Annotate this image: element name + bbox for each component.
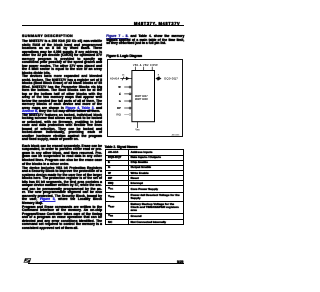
address bus slash: [122, 76, 124, 80]
header rule: [22, 25, 184, 26]
svg-text:VB1 & VB2 C/PW: VB1 & VB2 C/PW: [132, 62, 157, 66]
footer rule: [28, 263, 184, 264]
pin W wire: [124, 86, 129, 88]
data bus double arrow: [156, 77, 160, 79]
pin E wire: [124, 92, 129, 94]
pin RP wire: [124, 107, 129, 109]
svg-text:M48T 4048: M48T 4048: [134, 96, 147, 100]
svg-text:VSS: VSS: [135, 128, 140, 131]
svg-text:E: E: [119, 91, 121, 95]
header part numbers: [0, 21, 180, 26]
address bus arrowhead: [125, 76, 129, 80]
svg-text:RP: RP: [117, 106, 121, 110]
svg-text:A0-A14: A0-A14: [110, 76, 119, 80]
figure box: [107, 59, 184, 137]
figure caption: [106, 54, 142, 58]
svg-text:W: W: [118, 85, 121, 89]
top pin C/PW: [151, 66, 153, 70]
svg-text:DQ0-DQ7: DQ0-DQ7: [164, 76, 178, 80]
left column: [22, 34, 102, 230]
svg-text:G: G: [118, 99, 120, 103]
data bus slash: [157, 76, 159, 80]
table caption: [105, 145, 138, 149]
address bus wire: [120, 77, 132, 79]
page number: [170, 260, 183, 264]
svg-text:8: 8: [157, 74, 159, 76]
ground pin wire: [136, 121, 138, 127]
svg-text:AI01235: AI01235: [171, 133, 180, 136]
logic diagram svg: [107, 60, 184, 137]
signal table: [105, 149, 184, 225]
right column paragraph: [106, 35, 184, 46]
top pin VB1: [134, 66, 136, 70]
chip rectangle U1: [131, 70, 154, 121]
svg-text:IRQ: IRQ: [116, 112, 121, 116]
pin IRQ wire: [124, 113, 129, 115]
svg-text:15: 15: [122, 74, 125, 76]
footer logo: [23, 258, 32, 264]
top pin VB2: [142, 66, 144, 70]
pin G wire: [124, 100, 129, 102]
